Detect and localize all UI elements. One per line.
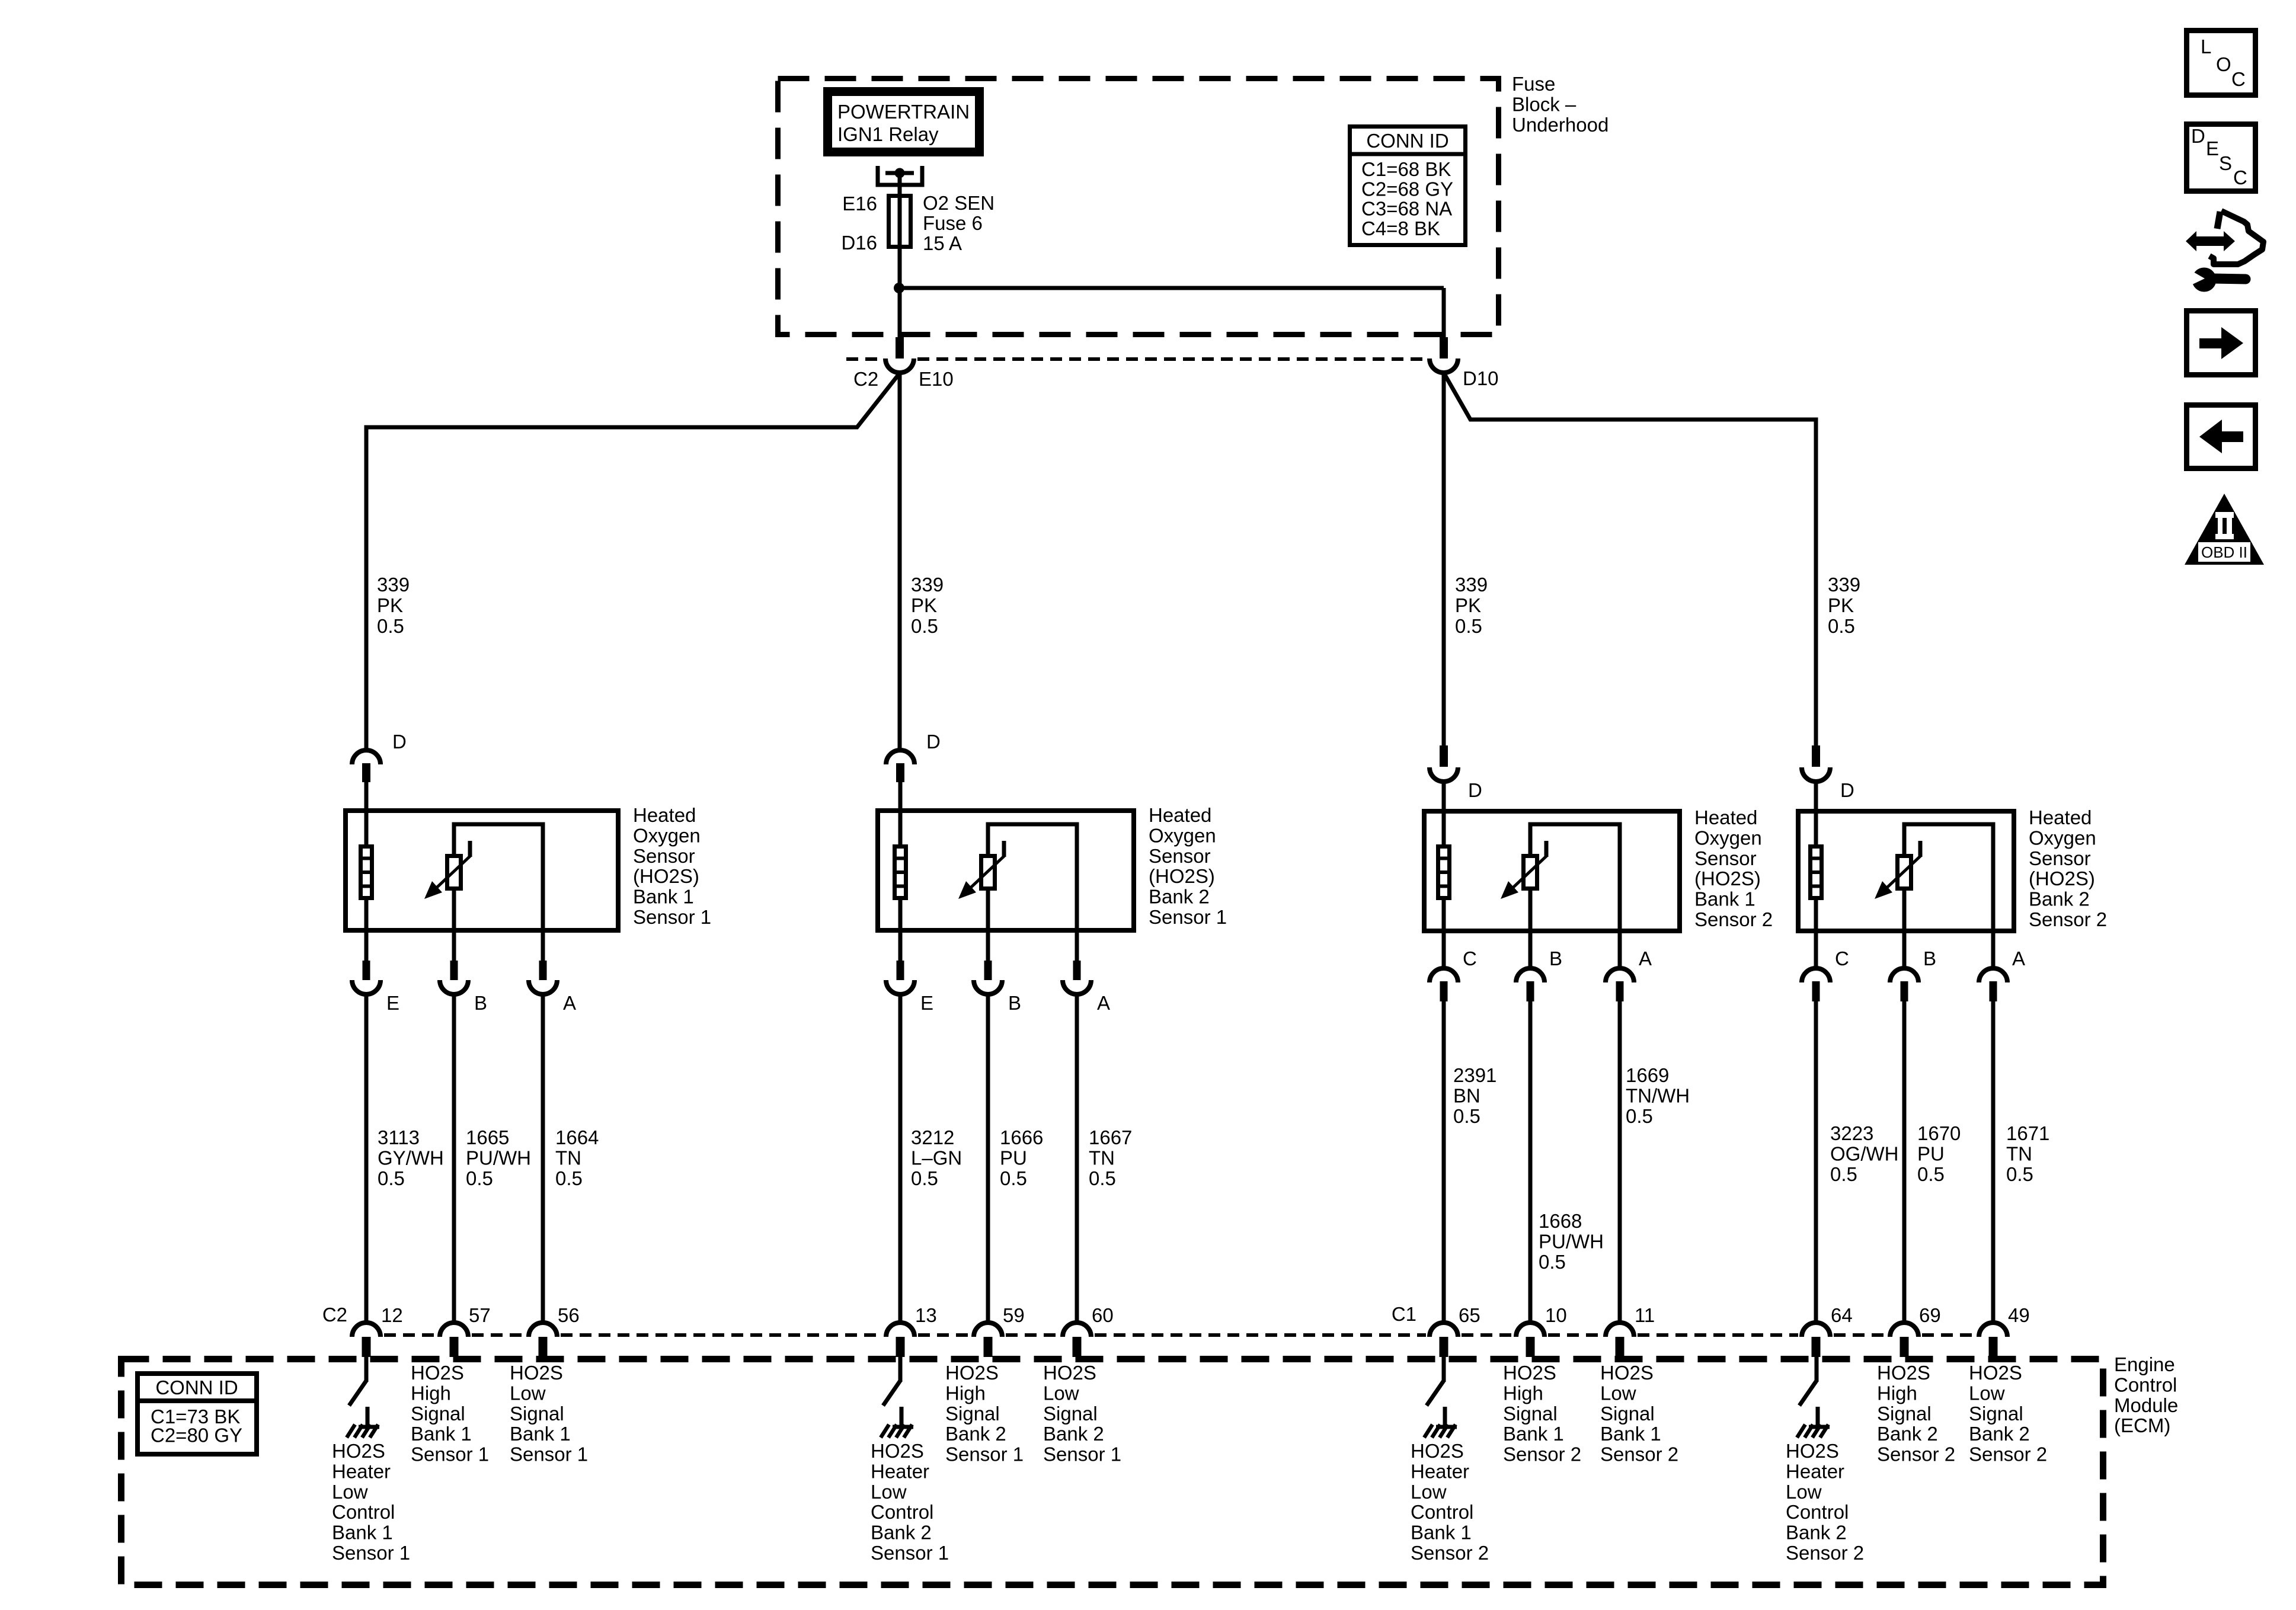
svg-text:339: 339 (1455, 574, 1488, 596)
svg-text:HO2S: HO2S (332, 1440, 385, 1462)
svg-text:10: 10 (1545, 1304, 1567, 1326)
svg-text:L–GN: L–GN (911, 1147, 962, 1169)
svg-text:C: C (2233, 167, 2247, 188)
svg-text:64: 64 (1831, 1304, 1853, 1326)
svg-text:PU: PU (1917, 1142, 1945, 1164)
svg-text:0.5: 0.5 (1455, 615, 1482, 637)
svg-text:HO2S: HO2S (945, 1362, 999, 1384)
svg-text:TN: TN (1089, 1147, 1115, 1169)
svg-text:Heated: Heated (1149, 804, 1211, 826)
svg-text:Low: Low (510, 1382, 546, 1404)
svg-text:0.5: 0.5 (2006, 1163, 2033, 1185)
svg-text:(ECM): (ECM) (2114, 1414, 2170, 1436)
svg-text:Bank 1: Bank 1 (1694, 888, 1755, 910)
svg-text:E: E (2206, 137, 2219, 159)
svg-text:0.5: 0.5 (1453, 1105, 1480, 1127)
svg-text:E: E (920, 992, 933, 1014)
svg-text:Bank 2: Bank 2 (1786, 1522, 1847, 1544)
svg-text:Control: Control (871, 1501, 933, 1523)
svg-text:Sensor 2: Sensor 2 (1786, 1542, 1864, 1564)
svg-text:Sensor 1: Sensor 1 (945, 1443, 1024, 1465)
svg-text:3223: 3223 (1830, 1122, 1873, 1144)
svg-text:Oxygen: Oxygen (633, 824, 701, 846)
svg-text:POWERTRAIN: POWERTRAIN (837, 101, 970, 123)
svg-text:Control: Control (2114, 1374, 2177, 1395)
svg-text:Bank 1: Bank 1 (1600, 1423, 1661, 1445)
svg-text:Bank 2: Bank 2 (871, 1522, 932, 1544)
svg-text:0.5: 0.5 (466, 1167, 493, 1189)
svg-text:65: 65 (1459, 1304, 1480, 1326)
svg-text:Sensor 2: Sensor 2 (2029, 908, 2107, 930)
svg-text:HO2S: HO2S (1503, 1362, 1556, 1384)
svg-text:(HO2S): (HO2S) (1149, 865, 1215, 887)
svg-text:0.5: 0.5 (555, 1167, 583, 1189)
svg-text:Low: Low (871, 1481, 907, 1503)
svg-text:Heater: Heater (1411, 1460, 1469, 1482)
svg-text:Low: Low (332, 1481, 368, 1503)
svg-text:C2=80 GY: C2=80 GY (151, 1425, 242, 1446)
svg-text:Heated: Heated (1694, 806, 1757, 828)
svg-text:TN/WH: TN/WH (1626, 1084, 1690, 1106)
svg-text:Heated: Heated (633, 804, 696, 826)
svg-text:PU: PU (1000, 1147, 1027, 1169)
svg-text:3212: 3212 (911, 1126, 954, 1148)
svg-text:HO2S: HO2S (871, 1440, 924, 1462)
svg-text:Sensor: Sensor (2029, 847, 2091, 869)
svg-text:CONN ID: CONN ID (155, 1377, 238, 1398)
svg-text:HO2S: HO2S (1600, 1362, 1654, 1384)
svg-text:B: B (474, 992, 487, 1014)
svg-text:Low: Low (1600, 1382, 1636, 1404)
svg-text:Bank 2: Bank 2 (2029, 888, 2090, 910)
svg-text:D: D (1840, 779, 1854, 801)
svg-text:Bank 2: Bank 2 (1043, 1423, 1104, 1445)
svg-text:Control: Control (1411, 1501, 1473, 1523)
svg-text:Sensor 2: Sensor 2 (1600, 1443, 1678, 1465)
svg-text:Bank 1: Bank 1 (1503, 1423, 1564, 1445)
svg-text:57: 57 (469, 1304, 491, 1326)
svg-text:Signal: Signal (1877, 1403, 1932, 1425)
svg-text:Oxygen: Oxygen (1149, 824, 1216, 846)
svg-text:A: A (2012, 948, 2025, 969)
svg-text:OG/WH: OG/WH (1830, 1142, 1898, 1164)
svg-text:Signal: Signal (945, 1403, 1000, 1425)
svg-text:D: D (2191, 125, 2205, 147)
svg-text:E10: E10 (919, 368, 954, 390)
svg-text:Module: Module (2114, 1394, 2178, 1416)
svg-text:PK: PK (377, 594, 403, 616)
svg-text:High: High (1503, 1382, 1543, 1404)
svg-text:Control: Control (1786, 1501, 1849, 1523)
svg-text:B: B (1008, 992, 1021, 1014)
svg-text:HO2S: HO2S (1969, 1362, 2022, 1384)
svg-text:Low: Low (1969, 1382, 2005, 1404)
svg-text:PK: PK (911, 594, 937, 616)
svg-text:HO2S: HO2S (1043, 1362, 1096, 1384)
svg-text:Sensor 2: Sensor 2 (1503, 1443, 1581, 1465)
svg-text:Signal: Signal (1600, 1403, 1655, 1425)
svg-text:Signal: Signal (1969, 1403, 2023, 1425)
svg-text:PU/WH: PU/WH (1539, 1230, 1604, 1252)
svg-text:Sensor: Sensor (1694, 847, 1757, 869)
svg-text:HO2S: HO2S (411, 1362, 464, 1384)
svg-text:1670: 1670 (1917, 1122, 1961, 1144)
svg-text:Signal: Signal (1503, 1403, 1558, 1425)
svg-text:0.5: 0.5 (911, 1167, 938, 1189)
svg-text:Sensor: Sensor (1149, 845, 1211, 867)
svg-text:Sensor 1: Sensor 1 (1043, 1443, 1121, 1465)
svg-text:Low: Low (1043, 1382, 1079, 1404)
svg-text:56: 56 (558, 1304, 580, 1326)
svg-text:TN: TN (2006, 1142, 2032, 1164)
svg-text:HO2S: HO2S (510, 1362, 563, 1384)
svg-text:Oxygen: Oxygen (1694, 827, 1762, 849)
svg-text:0.5: 0.5 (377, 615, 404, 637)
svg-text:Bank 1: Bank 1 (633, 886, 694, 908)
svg-text:C: C (1463, 948, 1477, 969)
svg-text:0.5: 0.5 (911, 615, 938, 637)
svg-text:TN: TN (555, 1147, 581, 1169)
svg-text:Signal: Signal (1043, 1403, 1098, 1425)
svg-text:Signal: Signal (411, 1403, 465, 1425)
svg-text:C1: C1 (1392, 1303, 1416, 1325)
svg-text:OBD II: OBD II (2201, 543, 2247, 561)
svg-text:0.5: 0.5 (1539, 1251, 1566, 1273)
svg-text:C2=68 GY: C2=68 GY (1361, 178, 1453, 200)
svg-text:Block –: Block – (1512, 93, 1576, 115)
svg-text:0.5: 0.5 (378, 1167, 405, 1189)
svg-text:High: High (945, 1382, 986, 1404)
svg-text:Sensor 1: Sensor 1 (411, 1443, 489, 1465)
svg-text:D10: D10 (1463, 367, 1499, 389)
svg-text:0.5: 0.5 (1828, 615, 1855, 637)
svg-text:0.5: 0.5 (1000, 1167, 1027, 1189)
svg-text:339: 339 (377, 574, 410, 596)
svg-text:E16: E16 (842, 193, 877, 215)
svg-text:CONN ID: CONN ID (1366, 130, 1448, 152)
svg-text:HO2S: HO2S (1877, 1362, 1930, 1384)
svg-text:Oxygen: Oxygen (2029, 827, 2096, 849)
svg-text:PK: PK (1828, 594, 1854, 616)
svg-text:1668: 1668 (1539, 1210, 1582, 1232)
svg-text:0.5: 0.5 (1917, 1163, 1945, 1185)
svg-text:339: 339 (911, 574, 944, 596)
svg-text:(HO2S): (HO2S) (633, 865, 699, 887)
svg-text:0.5: 0.5 (1830, 1163, 1857, 1185)
svg-text:Engine: Engine (2114, 1353, 2175, 1375)
svg-text:O2 SEN: O2 SEN (923, 192, 994, 214)
svg-text:Heater: Heater (871, 1460, 929, 1482)
svg-text:O: O (2216, 53, 2231, 75)
svg-text:L: L (2201, 36, 2211, 57)
svg-text:1667: 1667 (1089, 1126, 1132, 1148)
svg-text:Sensor 2: Sensor 2 (1877, 1443, 1955, 1465)
svg-text:0.5: 0.5 (1626, 1105, 1653, 1127)
svg-text:E: E (386, 992, 399, 1014)
svg-text:C1=68 BK: C1=68 BK (1361, 158, 1451, 180)
svg-text:C2: C2 (322, 1304, 347, 1326)
svg-text:C2: C2 (853, 368, 878, 390)
svg-text:High: High (1877, 1382, 1917, 1404)
svg-text:60: 60 (1092, 1304, 1114, 1326)
svg-text:Sensor 1: Sensor 1 (510, 1443, 588, 1465)
svg-text:C: C (1835, 948, 1849, 969)
svg-text:Low: Low (1411, 1481, 1447, 1503)
svg-text:Bank 1: Bank 1 (411, 1423, 472, 1445)
svg-text:49: 49 (2008, 1304, 2030, 1326)
svg-text:GY/WH: GY/WH (378, 1147, 444, 1169)
svg-text:Bank 2: Bank 2 (1877, 1423, 1938, 1445)
svg-text:Bank 2: Bank 2 (1969, 1423, 2030, 1445)
svg-text:C3=68 NA: C3=68 NA (1361, 198, 1452, 220)
svg-text:Sensor 1: Sensor 1 (633, 906, 711, 928)
svg-text:HO2S: HO2S (1786, 1440, 1839, 1462)
svg-text:D: D (926, 731, 941, 753)
svg-text:Heater: Heater (1786, 1460, 1844, 1482)
svg-text:1671: 1671 (2006, 1122, 2049, 1144)
svg-text:Bank 2: Bank 2 (1149, 886, 1210, 908)
svg-text:Sensor 1: Sensor 1 (1149, 906, 1227, 928)
svg-text:Heated: Heated (2029, 806, 2092, 828)
svg-text:Control: Control (332, 1501, 395, 1523)
svg-text:A: A (1639, 948, 1652, 969)
svg-text:15 A: 15 A (923, 232, 962, 254)
svg-text:(HO2S): (HO2S) (2029, 868, 2095, 889)
svg-text:Underhood: Underhood (1512, 114, 1609, 136)
svg-text:Bank 2: Bank 2 (945, 1423, 1006, 1445)
svg-text:Bank 1: Bank 1 (1411, 1522, 1472, 1544)
svg-text:Sensor 2: Sensor 2 (1969, 1443, 2047, 1465)
svg-text:1665: 1665 (466, 1126, 509, 1148)
svg-text:D16: D16 (841, 232, 877, 254)
svg-text:D: D (1468, 779, 1482, 801)
svg-text:BN: BN (1453, 1084, 1480, 1106)
svg-text:2391: 2391 (1453, 1064, 1496, 1086)
svg-text:IGN1 Relay: IGN1 Relay (837, 123, 939, 145)
svg-text:Heater: Heater (332, 1460, 391, 1482)
svg-text:3113: 3113 (378, 1126, 420, 1148)
svg-text:Bank 1: Bank 1 (510, 1423, 571, 1445)
svg-text:(HO2S): (HO2S) (1694, 868, 1761, 889)
svg-text:1669: 1669 (1626, 1064, 1669, 1086)
svg-text:S: S (2219, 152, 2232, 174)
svg-text:Sensor 2: Sensor 2 (1694, 908, 1773, 930)
svg-text:Sensor: Sensor (633, 845, 695, 867)
svg-text:B: B (1923, 948, 1936, 969)
svg-text:13: 13 (915, 1304, 937, 1326)
svg-text:Bank 1: Bank 1 (332, 1522, 393, 1544)
svg-text:HO2S: HO2S (1411, 1440, 1464, 1462)
svg-text:C4=8 BK: C4=8 BK (1361, 217, 1440, 239)
svg-text:Sensor 1: Sensor 1 (871, 1542, 949, 1564)
svg-text:PK: PK (1455, 594, 1481, 616)
svg-text:D: D (392, 731, 407, 753)
svg-text:B: B (1549, 948, 1562, 969)
svg-text:1666: 1666 (1000, 1126, 1043, 1148)
svg-text:C: C (2231, 68, 2246, 90)
svg-text:PU/WH: PU/WH (466, 1147, 531, 1169)
svg-text:59: 59 (1003, 1304, 1025, 1326)
svg-text:High: High (411, 1382, 451, 1404)
svg-text:A: A (563, 992, 576, 1014)
svg-text:Fuse 6: Fuse 6 (923, 212, 983, 234)
svg-text:339: 339 (1828, 574, 1860, 596)
svg-text:11: 11 (1635, 1304, 1655, 1326)
svg-text:Low: Low (1786, 1481, 1822, 1503)
svg-text:12: 12 (381, 1304, 403, 1326)
svg-text:Fuse: Fuse (1512, 73, 1555, 95)
svg-text:A: A (1097, 992, 1110, 1014)
svg-text:0.5: 0.5 (1089, 1167, 1116, 1189)
svg-text:Sensor 1: Sensor 1 (332, 1542, 410, 1564)
svg-text:1664: 1664 (555, 1126, 599, 1148)
svg-text:69: 69 (1919, 1304, 1941, 1326)
svg-text:Signal: Signal (510, 1403, 564, 1425)
svg-text:Sensor 2: Sensor 2 (1411, 1542, 1489, 1564)
